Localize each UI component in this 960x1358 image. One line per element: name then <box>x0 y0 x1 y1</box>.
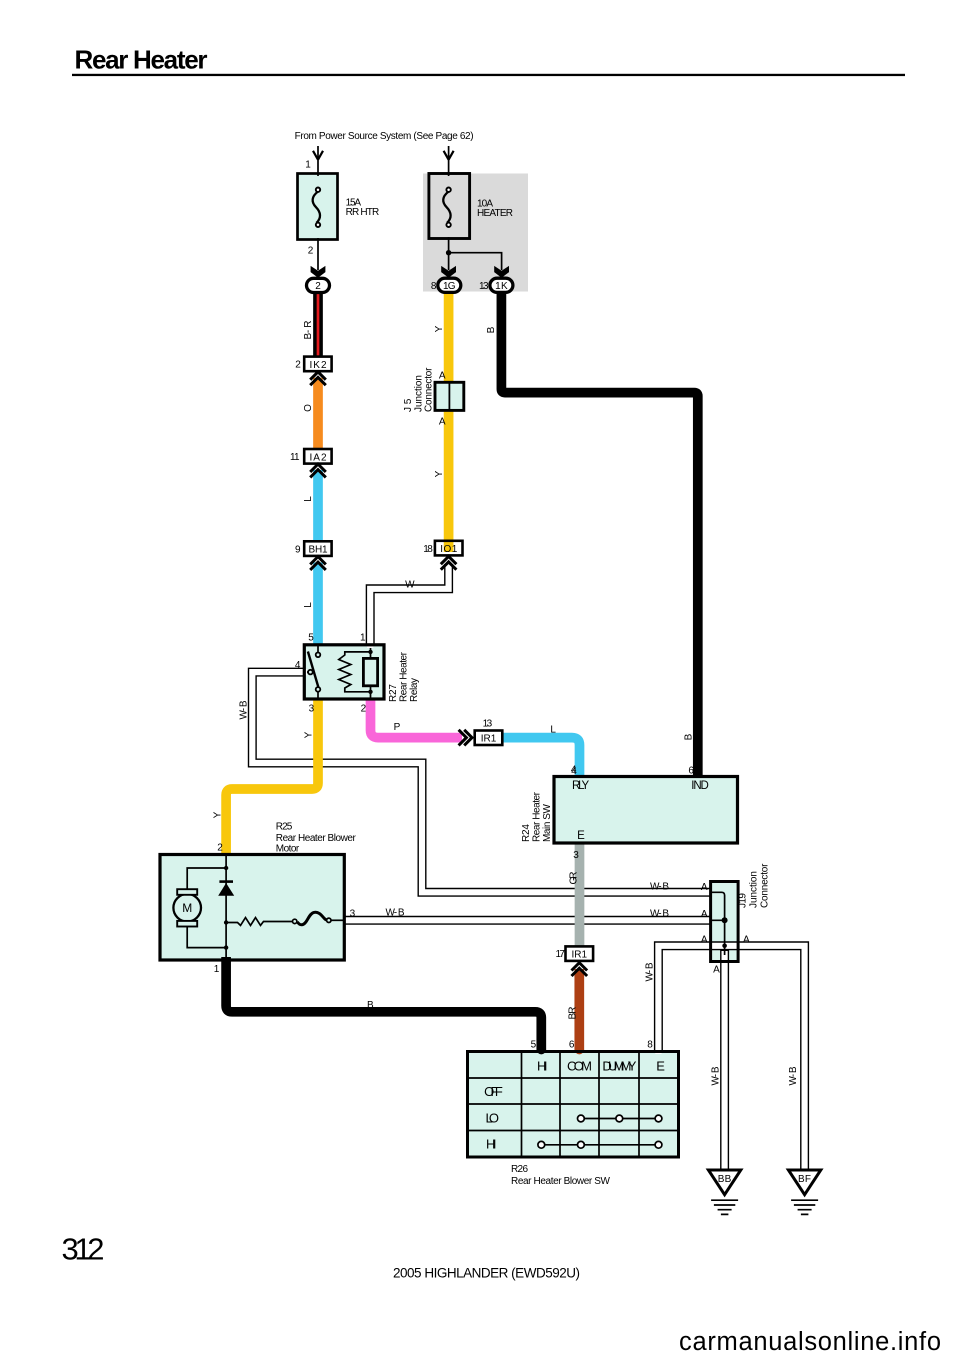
svg-text:BH1: BH1 <box>309 545 328 556</box>
svg-text:BF: BF <box>798 1174 811 1185</box>
svg-text:RLY: RLY <box>572 780 590 792</box>
svg-text:Rear Heater Blower SW: Rear Heater Blower SW <box>511 1176 611 1187</box>
svg-text:Relay: Relay <box>409 678 420 702</box>
svg-text:From Power Source System (See: From Power Source System (See Page 62) <box>295 131 474 142</box>
svg-text:DUMMY: DUMMY <box>602 1058 636 1073</box>
svg-text:2005 HIGHLANDER (EWD592U): 2005 HIGHLANDER (EWD592U) <box>393 1266 580 1281</box>
svg-text:9: 9 <box>295 545 301 556</box>
svg-text:Motor: Motor <box>276 844 300 855</box>
svg-text:W- B: W- B <box>788 1066 799 1085</box>
svg-text:HI: HI <box>486 1137 497 1152</box>
svg-text:A: A <box>701 934 708 945</box>
svg-text:R27: R27 <box>388 684 399 702</box>
svg-text:13: 13 <box>483 718 493 729</box>
svg-text:IO1: IO1 <box>440 544 457 555</box>
svg-text:1G: 1G <box>443 281 456 292</box>
svg-text:Main SW: Main SW <box>542 803 553 842</box>
svg-text:B: B <box>367 1000 374 1011</box>
svg-text:BB: BB <box>718 1174 732 1185</box>
svg-text:J 5: J 5 <box>403 398 414 412</box>
svg-text:11: 11 <box>290 452 300 463</box>
svg-text:1: 1 <box>360 633 366 644</box>
svg-text:RR HTR: RR HTR <box>346 207 380 218</box>
svg-text:Y: Y <box>434 470 445 477</box>
svg-text:8: 8 <box>647 1039 653 1050</box>
svg-text:B: B <box>486 326 497 333</box>
svg-text:BR: BR <box>568 1007 579 1020</box>
svg-text:E: E <box>577 830 585 842</box>
svg-text:W- B: W- B <box>711 1066 722 1085</box>
svg-text:6: 6 <box>688 766 694 777</box>
svg-text:A: A <box>713 964 720 975</box>
svg-text:4: 4 <box>571 766 577 777</box>
svg-text:IR1: IR1 <box>481 733 497 744</box>
svg-text:A: A <box>701 909 708 920</box>
svg-text:IA2: IA2 <box>310 452 327 463</box>
svg-text:GR: GR <box>569 872 580 885</box>
svg-text:O: O <box>303 404 314 412</box>
svg-text:LO: LO <box>486 1110 500 1125</box>
svg-text:3: 3 <box>309 703 315 714</box>
svg-text:HI: HI <box>537 1058 548 1073</box>
svg-text:IR1: IR1 <box>572 949 588 960</box>
svg-text:Junction: Junction <box>749 871 760 908</box>
svg-text:B: B <box>684 733 695 740</box>
svg-text:E: E <box>656 1058 665 1073</box>
svg-text:Rear Heater: Rear Heater <box>399 651 410 702</box>
svg-text:1K: 1K <box>495 281 508 292</box>
svg-text:5: 5 <box>308 633 314 644</box>
svg-text:3: 3 <box>350 909 356 920</box>
svg-text:Rear Heater: Rear Heater <box>75 45 208 75</box>
svg-text:HEATER: HEATER <box>477 208 513 219</box>
svg-text:A: A <box>439 370 446 381</box>
svg-text:L: L <box>550 725 556 736</box>
svg-text:COM: COM <box>567 1058 592 1073</box>
svg-text:8: 8 <box>431 281 437 292</box>
svg-text:Connector: Connector <box>424 367 435 412</box>
svg-text:OFF: OFF <box>484 1084 503 1099</box>
svg-text:2: 2 <box>315 281 321 292</box>
svg-text:carmanualsonline.info: carmanualsonline.info <box>679 1328 941 1356</box>
svg-text:W- B: W- B <box>645 962 656 981</box>
svg-text:A: A <box>701 882 708 893</box>
svg-text:1: 1 <box>305 159 311 170</box>
svg-text:4: 4 <box>295 660 301 671</box>
svg-text:6: 6 <box>569 1039 575 1050</box>
svg-text:W- B: W- B <box>650 881 669 892</box>
svg-text:W- B: W- B <box>239 700 250 719</box>
svg-text:A: A <box>743 934 750 945</box>
svg-text:2: 2 <box>217 843 223 854</box>
svg-text:18: 18 <box>423 544 433 555</box>
svg-text:W: W <box>405 579 415 590</box>
svg-text:IND: IND <box>691 780 709 792</box>
svg-text:IK2: IK2 <box>310 360 327 371</box>
svg-text:J19: J19 <box>738 893 749 908</box>
svg-text:M: M <box>182 901 192 915</box>
svg-text:R24: R24 <box>521 824 532 842</box>
svg-text:P: P <box>394 722 401 733</box>
svg-text:2: 2 <box>308 245 314 256</box>
svg-text:W- B: W- B <box>650 909 669 920</box>
svg-text:13: 13 <box>479 281 489 292</box>
svg-text:Y: Y <box>304 731 315 738</box>
svg-text:R26: R26 <box>511 1164 528 1175</box>
svg-text:Connector: Connector <box>760 863 771 908</box>
svg-text:R25: R25 <box>276 822 293 833</box>
svg-text:5: 5 <box>531 1039 537 1050</box>
svg-text:1: 1 <box>214 964 220 975</box>
svg-text:Rear Heater: Rear Heater <box>532 791 543 842</box>
svg-text:312: 312 <box>62 1232 105 1267</box>
svg-text:A: A <box>439 416 446 427</box>
svg-text:L: L <box>303 496 314 502</box>
svg-text:Rear Heater Blower: Rear Heater Blower <box>276 833 357 844</box>
svg-text:17: 17 <box>555 949 565 960</box>
svg-text:3: 3 <box>573 850 579 861</box>
svg-text:2: 2 <box>295 359 301 370</box>
svg-text:B- R: B- R <box>303 321 314 340</box>
svg-text:2: 2 <box>361 703 367 714</box>
svg-text:Y: Y <box>213 811 224 818</box>
svg-text:L: L <box>303 602 314 608</box>
svg-text:W- B: W- B <box>386 907 405 918</box>
svg-text:Y: Y <box>434 325 445 332</box>
